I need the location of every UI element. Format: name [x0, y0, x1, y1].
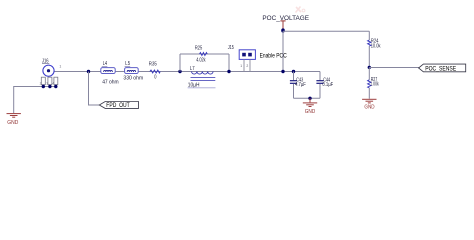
- wire: riser to R25 branch: [179, 54, 181, 72]
- svg-text:4.7µF: 4.7µF: [295, 82, 306, 88]
- svg-text:2: 2: [246, 64, 248, 68]
- wire: shield pins to gnd rail: [14, 86, 56, 88]
- svg-text:GND: GND: [305, 109, 315, 115]
- svg-text:4: 4: [52, 82, 54, 86]
- wire: main rail through L7 to right junction: [180, 71, 229, 73]
- svg-text:0.1µF: 0.1µF: [322, 82, 333, 88]
- capacitor C44: [316, 72, 333, 99]
- faint red annotation mark above POC_VOLTAGE: [296, 7, 305, 13]
- resistor R27: [368, 67, 379, 98]
- power symbol POC_VOLTAGE: [262, 15, 309, 31]
- inductor L7: [188, 66, 216, 89]
- ground (left): [7, 114, 21, 118]
- wire: main rail L4-L5-R35 to left parallel junction: [88, 71, 180, 73]
- wire: top rail to R24: [283, 30, 369, 32]
- svg-text:POC_VOLTAGE: POC_VOLTAGE: [262, 15, 309, 22]
- jumper J15: [228, 45, 256, 72]
- resistor R35: [149, 61, 160, 80]
- node: POC_SENSE junction: [368, 66, 371, 69]
- wire: J16 pin1 to junction: [54, 71, 88, 73]
- inductor L5: [123, 61, 143, 82]
- svg-text:1.00k: 1.00k: [370, 81, 379, 87]
- port FPD_OUT: [99, 102, 138, 110]
- svg-text:4.02k: 4.02k: [196, 57, 206, 63]
- svg-text:POC_SENSE: POC_SENSE: [425, 66, 456, 73]
- node: gnd junction: [308, 97, 311, 100]
- connector J16: [40, 58, 62, 85]
- node: left junction of parallel R25/L7: [178, 70, 181, 73]
- wire: POC_VOLTAGE riser down to main rail: [282, 31, 284, 71]
- wire: down to FPD_OUT: [89, 72, 100, 106]
- svg-text:0: 0: [154, 74, 156, 80]
- capacitor C43: [290, 72, 306, 99]
- svg-text:GND: GND: [364, 104, 374, 110]
- J16 shield pin boxes: [41, 77, 45, 84]
- wire: to POC_SENSE port: [369, 67, 419, 69]
- resistor R24: [368, 31, 381, 67]
- svg-text:3: 3: [46, 82, 48, 86]
- wire: main rail to C44 corner: [229, 71, 320, 73]
- node POC_VOLTAGE: [281, 28, 285, 32]
- node: right junction of parallel: [227, 70, 230, 73]
- svg-text:J15: J15: [228, 45, 234, 51]
- node junction at FPD_OUT tap: [87, 70, 90, 73]
- junction dots on shield rail: [42, 85, 45, 88]
- svg-text:2: 2: [40, 82, 42, 86]
- ground (C43/C44): [303, 98, 317, 115]
- svg-text:10.0k: 10.0k: [371, 44, 381, 50]
- svg-text:GND: GND: [7, 120, 18, 126]
- svg-text:1: 1: [240, 64, 242, 68]
- svg-text:R25: R25: [195, 45, 203, 51]
- node: main rail at C43: [292, 70, 295, 73]
- resistor R25: [195, 45, 207, 63]
- svg-text:330 ohm: 330 ohm: [123, 76, 143, 82]
- port POC_SENSE: [419, 64, 466, 73]
- wire: down to left GND: [13, 86, 15, 113]
- svg-text:R35: R35: [149, 61, 157, 67]
- ground (R27): [362, 99, 376, 110]
- svg-text:L7: L7: [190, 66, 195, 72]
- inductor L4: [101, 61, 119, 85]
- node: main rail at POC riser: [281, 70, 284, 73]
- wire: riser down right: [228, 54, 230, 72]
- wire: R25 branch top: [180, 53, 229, 55]
- svg-text:FPD_OUT: FPD_OUT: [106, 102, 130, 109]
- svg-text:47 ohm: 47 ohm: [102, 80, 119, 86]
- wire: cap bottom rail: [294, 97, 321, 99]
- svg-text:1: 1: [59, 65, 61, 69]
